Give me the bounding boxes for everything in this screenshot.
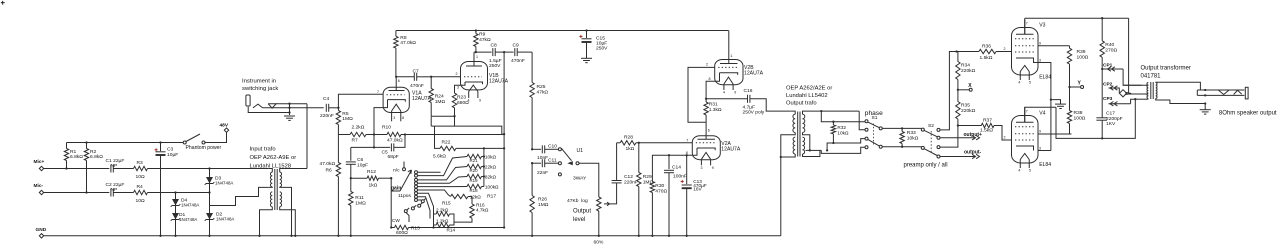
tube V2A <box>692 136 720 160</box>
svg-text:250V: 250V <box>489 63 501 69</box>
capacitor C6 <box>351 146 374 148</box>
svg-text:V4: V4 <box>1039 111 1045 117</box>
svg-text:3WAY: 3WAY <box>573 175 587 181</box>
wire S2 to R37 node <box>940 126 958 148</box>
switch gain arc contacts <box>421 200 424 203</box>
svg-text:9: 9 <box>734 91 736 95</box>
jack tip contact <box>1234 90 1242 94</box>
resistor R38 <box>1067 111 1071 124</box>
capacitor C15 <box>585 29 587 31</box>
svg-text:68pF: 68pF <box>388 154 399 160</box>
resistor R31 <box>704 102 708 115</box>
wire V2A cathode bus <box>692 148 697 155</box>
resistor R35 <box>956 102 960 120</box>
svg-text:OEP A262/A2E or: OEP A262/A2E or <box>786 86 832 92</box>
svg-text:R7: R7 <box>352 138 359 144</box>
svg-text:2: 2 <box>1004 136 1006 140</box>
resistor R7 <box>350 132 366 136</box>
wire T3 pri B+ lead <box>1129 92 1149 95</box>
svg-text:Mic+: Mic+ <box>34 159 45 165</box>
svg-text:10µF: 10µF <box>167 152 178 158</box>
wire V3 g2 to R39 <box>1038 45 1070 47</box>
svg-text:7: 7 <box>377 90 379 94</box>
resistor R18 <box>467 184 482 188</box>
resistor R23 <box>452 93 456 108</box>
svg-text:3: 3 <box>1039 59 1041 63</box>
wire R40 to CP1 line <box>1101 57 1103 117</box>
resistor R16 <box>468 196 472 198</box>
capacitor C9 <box>504 51 513 53</box>
switch U1 contact b <box>558 162 561 165</box>
svg-text:8: 8 <box>709 77 711 81</box>
svg-text:R12: R12 <box>367 169 376 175</box>
svg-text:600Ω: 600Ω <box>396 230 408 236</box>
svg-text:R20: R20 <box>470 168 479 173</box>
svg-text:470Ω: 470Ω <box>655 189 667 195</box>
svg-text:1N4748A: 1N4748A <box>216 217 234 222</box>
wire <box>148 192 210 194</box>
svg-text:680Ω: 680Ω <box>457 100 469 106</box>
resistor R13 <box>395 225 409 229</box>
resistor R28 <box>620 141 636 145</box>
resistor R26 <box>531 163 533 195</box>
svg-text:R35: R35 <box>961 103 970 109</box>
svg-text:R30: R30 <box>655 183 664 189</box>
wire contact fan <box>418 157 468 176</box>
svg-text:12AU7A: 12AU7A <box>744 71 764 77</box>
ground cathodes <box>1050 98 1052 100</box>
svg-text:10kΩ: 10kΩ <box>907 136 919 142</box>
svg-text:16V: 16V <box>693 187 702 192</box>
svg-text:Mic-: Mic- <box>34 183 44 189</box>
svg-text:1MΩ: 1MΩ <box>435 99 446 105</box>
svg-text:60%: 60% <box>594 240 604 245</box>
B+ diamond <box>1119 90 1126 97</box>
resistor R25 <box>530 83 534 98</box>
svg-text:R38: R38 <box>1074 110 1083 116</box>
svg-text:R19: R19 <box>470 178 479 183</box>
capacitor C11 <box>531 162 533 164</box>
connector GND <box>39 234 43 238</box>
jack tip contact <box>253 104 263 108</box>
resistor R4 <box>134 190 148 194</box>
svg-text:2.2kΩ: 2.2kΩ <box>436 208 449 213</box>
svg-text:10kΩ: 10kΩ <box>837 130 849 135</box>
svg-text:NP: NP <box>111 163 118 169</box>
resistor R22 <box>435 126 441 148</box>
switch phantom power <box>183 141 186 144</box>
resistor R17 <box>451 194 469 198</box>
svg-text:R22: R22 <box>442 140 451 146</box>
svg-text:Output trafo: Output trafo <box>786 101 817 107</box>
svg-text:R31: R31 <box>709 102 718 108</box>
wire T3 sec top to jack <box>1156 82 1201 90</box>
svg-text:250V poly: 250V poly <box>743 110 765 116</box>
svg-text:C6: C6 <box>357 157 364 163</box>
svg-text:R28: R28 <box>624 135 633 141</box>
svg-text:10Ω: 10Ω <box>136 198 145 204</box>
wire snubber loop <box>1056 99 1135 138</box>
resistor R36 <box>957 51 979 53</box>
svg-text:R18: R18 <box>470 188 479 193</box>
svg-text:R11: R11 <box>355 195 364 201</box>
wire T3 sec bottom <box>1156 99 1206 104</box>
capacitor C5 <box>373 135 375 148</box>
svg-text:041781: 041781 <box>1141 74 1162 80</box>
svg-text:Output: Output <box>573 209 591 215</box>
wire T3 pri top lead <box>1123 84 1148 86</box>
svg-text:2.2kΩ: 2.2kΩ <box>352 125 365 131</box>
svg-text:100Ω: 100Ω <box>1074 116 1086 122</box>
svg-text:R9: R9 <box>479 32 486 38</box>
wire V4 cathode <box>1038 150 1051 152</box>
jack switch contact <box>268 104 276 108</box>
svg-text:Output transformer: Output transformer <box>1141 66 1191 72</box>
svg-text:10Ω: 10Ω <box>136 174 145 180</box>
svg-text:1: 1 <box>476 55 478 59</box>
resistor R21 <box>467 154 482 158</box>
svg-text:EL84: EL84 <box>1039 162 1051 168</box>
wire S1 to S2 <box>882 127 921 129</box>
svg-text:Phantom power: Phantom power <box>186 145 222 151</box>
node R37/R35 <box>957 124 959 126</box>
resistor R33 <box>900 132 904 144</box>
svg-text:47.0kΩ: 47.0kΩ <box>400 40 416 46</box>
svg-text:1kΩ: 1kΩ <box>369 183 378 189</box>
capacitor C10 <box>531 148 533 150</box>
wire r24/r23 bus <box>431 115 454 117</box>
svg-text:220nF: 220nF <box>624 179 638 185</box>
wire center-tap link <box>210 187 269 205</box>
svg-text:V3: V3 <box>1039 23 1045 29</box>
svg-text:R39: R39 <box>1077 49 1086 55</box>
switch U1 pole <box>576 162 579 165</box>
svg-text:1N4748A: 1N4748A <box>181 202 199 207</box>
wire jack switch line <box>276 103 307 105</box>
resistor R8 <box>395 31 397 37</box>
svg-text:10pF: 10pF <box>357 163 368 169</box>
switch U1 contact a <box>558 148 561 151</box>
svg-text:47.0kΩ: 47.0kΩ <box>320 161 336 167</box>
svg-text:C4: C4 <box>323 96 330 102</box>
capacitor C7 <box>395 76 397 78</box>
svg-text:100nF: 100nF <box>673 174 687 180</box>
wire to 48V <box>205 132 226 142</box>
wire trafo sec CT <box>280 187 292 236</box>
svg-text:2: 2 <box>1004 47 1006 51</box>
svg-text:7: 7 <box>686 139 688 143</box>
svg-text:R4: R4 <box>137 184 144 190</box>
svg-text:470nF: 470nF <box>511 58 525 64</box>
svg-text:1N4748A: 1N4748A <box>179 217 197 222</box>
svg-text:switching jack: switching jack <box>242 86 278 92</box>
svg-text:4.7kΩ: 4.7kΩ <box>476 208 489 213</box>
svg-text:n/c: n/c <box>393 168 400 174</box>
svg-text:NP: NP <box>111 187 118 193</box>
wire B+ rail preamp <box>396 30 729 32</box>
pot wiper <box>604 202 610 206</box>
svg-text:C11: C11 <box>548 158 557 164</box>
node X <box>957 80 959 102</box>
svg-text:10kΩ: 10kΩ <box>485 154 497 159</box>
tube V1B <box>461 62 488 90</box>
svg-text:R40: R40 <box>1105 42 1114 48</box>
resistor R39 <box>1069 46 1071 48</box>
resistor R29 <box>638 143 640 173</box>
wire power rail <box>1025 17 1129 19</box>
connector Mic- <box>39 190 43 194</box>
wire T2 sec CT <box>803 133 810 151</box>
tube V3 <box>1012 28 1039 76</box>
ladder bus <box>483 148 485 186</box>
svg-text:47Kb log: 47Kb log <box>567 198 588 204</box>
svg-text:R10: R10 <box>382 125 391 131</box>
svg-text:S2: S2 <box>928 123 934 129</box>
jack switch contact <box>1218 90 1229 95</box>
wire S2 to V3 feed <box>940 52 956 130</box>
svg-text:CW: CW <box>392 218 400 223</box>
svg-text:47kΩ: 47kΩ <box>479 37 491 43</box>
svg-text:3: 3 <box>457 86 459 90</box>
svg-text:R26: R26 <box>538 197 547 203</box>
svg-text:Instrument in: Instrument in <box>242 79 276 85</box>
wire trafo sec bottom <box>280 207 296 236</box>
wire T2 pri bottom <box>781 154 795 157</box>
resistor R32 <box>821 111 833 122</box>
svg-text:C3: C3 <box>167 147 174 153</box>
tube V1A <box>383 87 409 112</box>
wire sec lower feed <box>806 149 822 151</box>
svg-text:12AU7A: 12AU7A <box>721 146 741 152</box>
svg-text:R29: R29 <box>643 174 652 180</box>
svg-text:2: 2 <box>456 72 458 76</box>
svg-text:22nF: 22nF <box>537 170 548 176</box>
wire V2B cathode <box>706 73 719 99</box>
svg-text:3: 3 <box>1039 147 1041 151</box>
svg-text:2200pF: 2200pF <box>1106 116 1123 122</box>
capacitor C4 <box>325 104 327 112</box>
svg-text:1: 1 <box>731 54 733 58</box>
svg-text:220kΩ: 220kΩ <box>961 68 976 74</box>
wire V4 g2 <box>1038 133 1072 135</box>
wire <box>44 168 110 170</box>
jack J1 sleeve <box>246 95 250 106</box>
tube V4 <box>1012 116 1039 164</box>
svg-text:R33: R33 <box>907 130 916 136</box>
svg-text:1.2kΩ: 1.2kΩ <box>436 219 449 224</box>
svg-text:CP1: CP1 <box>1103 63 1113 69</box>
svg-text:R13: R13 <box>411 225 420 231</box>
svg-text:EL84: EL84 <box>1039 74 1051 80</box>
connector Mic+ <box>39 166 43 170</box>
svg-text:1.3kΩ: 1.3kΩ <box>709 107 722 113</box>
svg-text:4: 4 <box>723 91 725 95</box>
svg-text:5.6kΩ: 5.6kΩ <box>433 154 446 160</box>
resistor R37 <box>958 125 981 127</box>
wire to V4 grid <box>994 126 1012 141</box>
wire S1 feed c1 <box>833 121 865 123</box>
wire cathode V1B <box>455 82 466 93</box>
transformer T3 output <box>1150 82 1152 99</box>
svg-text:U1: U1 <box>577 148 584 154</box>
wire T2 pri CT <box>781 133 795 158</box>
svg-text:C10: C10 <box>548 144 557 150</box>
svg-text:1MΩ: 1MΩ <box>342 116 353 122</box>
svg-text:9: 9 <box>1039 130 1041 134</box>
capacitor C16 <box>706 98 747 100</box>
svg-text:1.5kΩ: 1.5kΩ <box>980 128 993 134</box>
svg-text:3: 3 <box>393 116 395 120</box>
svg-text:7: 7 <box>1026 22 1028 26</box>
svg-text:Lundahl LL5402: Lundahl LL5402 <box>786 93 828 99</box>
resistor R34 <box>957 52 958 62</box>
svg-text:470nF: 470nF <box>410 83 424 89</box>
svg-text:C7: C7 <box>413 69 420 75</box>
svg-text:CP3: CP3 <box>1103 96 1113 102</box>
wire trafo pri bottom <box>260 207 273 236</box>
svg-text:level: level <box>573 217 585 223</box>
node grid V1A <box>329 107 339 109</box>
svg-text:1KV: 1KV <box>1106 121 1116 127</box>
tube V2B <box>715 60 743 85</box>
crop mark <box>1 2 5 4</box>
svg-text:47kΩ: 47kΩ <box>537 90 549 96</box>
wire T3 pri bottom lead <box>1135 98 1148 100</box>
wire to V1B grid <box>431 76 460 78</box>
jack node links <box>1204 89 1206 91</box>
svg-text:R15: R15 <box>442 201 451 206</box>
svg-text:R3: R3 <box>137 160 144 166</box>
svg-text:C16: C16 <box>744 88 753 94</box>
resistor R1 <box>64 149 68 161</box>
wire S1 feed c3 <box>827 143 833 150</box>
svg-text:R21: R21 <box>470 158 479 163</box>
svg-text:100Ω: 100Ω <box>1077 55 1089 61</box>
svg-text:R37: R37 <box>983 118 992 124</box>
svg-text:100kΩ: 100kΩ <box>485 184 499 189</box>
svg-text:6: 6 <box>708 128 710 132</box>
resistor R40 <box>1101 18 1103 41</box>
svg-text:Input trafo: Input trafo <box>250 147 276 153</box>
wire T2 pri top <box>790 111 795 114</box>
resistor R2 <box>84 149 88 161</box>
switch gain contacts <box>415 171 418 174</box>
capacitor C1 <box>110 165 112 173</box>
wire T2 pri bottom to gnd rail <box>780 157 782 236</box>
svg-text:220nF: 220nF <box>320 113 334 119</box>
svg-text:R34: R34 <box>961 63 970 69</box>
resistor R20 <box>467 164 482 168</box>
resistor R11 <box>350 178 352 191</box>
svg-text:GND: GND <box>36 227 47 233</box>
wire phantom rail <box>67 142 184 144</box>
svg-text:C14: C14 <box>672 165 681 171</box>
wire pole to pot <box>579 163 599 197</box>
svg-text:4: 4 <box>1018 169 1020 173</box>
resistor R9 <box>475 29 477 31</box>
capacitor C14 <box>668 155 670 169</box>
zener D4 <box>174 191 176 193</box>
svg-text:2: 2 <box>706 62 708 66</box>
svg-text:OEP A262-A9E or: OEP A262-A9E or <box>250 155 297 161</box>
wire <box>44 192 110 194</box>
resistor R15 <box>433 214 435 228</box>
svg-text:R6: R6 <box>326 168 333 174</box>
switch U1 contact c <box>558 173 561 176</box>
wire jack tip line <box>263 107 324 109</box>
svg-text:7: 7 <box>1026 110 1028 114</box>
svg-text:R32: R32 <box>837 125 846 130</box>
svg-text:6: 6 <box>398 79 400 83</box>
svg-text:1kΩ: 1kΩ <box>626 146 635 152</box>
node mic- junction <box>208 191 210 193</box>
svg-text:9: 9 <box>1039 42 1041 46</box>
zener D2 <box>206 213 213 220</box>
svg-text:C2 22µF: C2 22µF <box>106 182 125 188</box>
svg-text:1N4748A: 1N4748A <box>215 181 233 186</box>
svg-text:82kΩ: 82kΩ <box>485 174 497 179</box>
wire trafo sec top to jack <box>280 169 307 173</box>
wire <box>148 168 269 170</box>
svg-text:C9: C9 <box>513 43 520 49</box>
wire T2 sec bottom <box>803 150 820 156</box>
resistor R14 <box>434 224 437 226</box>
switch gain wiper <box>391 190 400 192</box>
svg-text:1MΩ: 1MΩ <box>355 200 366 206</box>
wire trafo pri CT <box>269 186 273 189</box>
svg-text:C8: C8 <box>491 43 498 49</box>
capacitor C8 <box>476 51 492 53</box>
svg-text:12AU7A: 12AU7A <box>489 79 509 85</box>
ground jack <box>284 115 295 117</box>
capacitor C17 <box>1096 117 1107 119</box>
capacitor C2 <box>110 189 112 197</box>
svg-text:3: 3 <box>701 166 703 170</box>
speaker jack J2 <box>1197 89 1244 91</box>
wire V3 plate to rail <box>1024 18 1026 34</box>
svg-text:C17: C17 <box>1106 111 1115 117</box>
wire V3 cathode <box>1034 58 1039 63</box>
wire fb line y125 <box>430 116 432 126</box>
svg-text:22kΩ: 22kΩ <box>485 164 497 169</box>
wire R25 chain <box>531 52 533 82</box>
node R36/R34 <box>955 50 957 52</box>
svg-text:1.5kΩ: 1.5kΩ <box>980 55 993 61</box>
wire jack sleeve line <box>248 107 289 113</box>
transformer T1 input <box>274 169 276 210</box>
ground speaker <box>1204 104 1206 110</box>
resistor R6 <box>337 135 339 163</box>
wire S1 feed c4 <box>821 147 865 153</box>
transformer T2 <box>797 112 799 157</box>
zener D3 <box>209 169 211 236</box>
wire cathode feedback line <box>338 134 350 136</box>
svg-text:R17: R17 <box>487 194 496 200</box>
svg-text:220kΩ: 220kΩ <box>961 108 976 114</box>
svg-text:R23: R23 <box>457 94 466 100</box>
ground C15 <box>581 57 592 59</box>
resistor R30 <box>650 182 654 193</box>
svg-text:C1 22µF: C1 22µF <box>106 158 125 164</box>
wire V2B grid <box>688 67 715 122</box>
wire GND rail <box>44 235 781 237</box>
svg-text:5: 5 <box>1029 81 1031 85</box>
svg-text:8: 8 <box>402 116 404 120</box>
svg-text:11pos: 11pos <box>398 193 412 199</box>
capacitor C3 <box>159 141 161 143</box>
svg-text:270Ω: 270Ω <box>1105 48 1117 54</box>
resistor R3 <box>134 166 148 170</box>
